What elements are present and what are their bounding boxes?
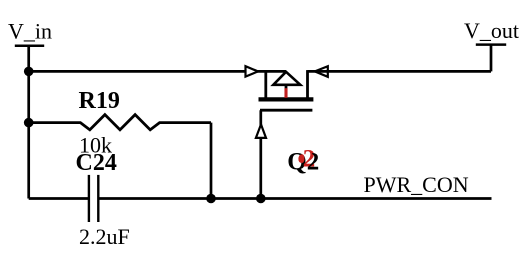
label Q2 [287,146,319,176]
wire: top horizontal V_in to Q2 source [29,70,286,73]
svg-text:V_in: V_in [8,19,52,44]
resistor R19 [29,115,211,130]
wire: bottom PWR_CON net [29,197,89,200]
source leg [264,70,267,99]
svg-text:C24: C24 [76,150,117,176]
source arrow (open, pointing right) [246,66,259,76]
wire: V_out stub down [490,45,493,72]
svg-text:PWR_CON: PWR_CON [364,172,469,197]
wire: R19 right lead down to PWR_CON [210,123,213,199]
substrate stub black [285,85,288,90]
wire: V_in rail down left side [27,46,30,199]
gate bar [260,109,312,112]
svg-text:R19: R19 [79,88,120,114]
svg-text:V_out: V_out [464,18,519,43]
substrate stub red [284,88,287,98]
wire: Q2 drain to V_out [308,70,492,73]
channel bar [259,97,314,101]
port V_out symbol [476,43,506,46]
drain arrow (open, pointing left) [315,66,328,77]
port V_in symbol [15,45,44,48]
junction dot at Q2 gate / PWR_CON [256,194,266,204]
substrate arrow triangle [273,72,300,85]
capacitor C24 plates [89,175,98,222]
svg-text:2.2uF: 2.2uF [79,224,130,249]
gate arrow (open, pointing up) [256,124,266,137]
wire: bottom PWR_CON net right of C24 [98,197,491,200]
junction dot at R19 / PWR_CON [206,194,216,204]
drain leg [306,70,309,99]
wire: Q2 gate down to PWR_CON [259,110,262,198]
junction dot at V_in / top wire [24,67,34,77]
transistor Q2 p-mosfet [259,70,314,110]
junction dot at V_in / R19 [24,118,34,128]
